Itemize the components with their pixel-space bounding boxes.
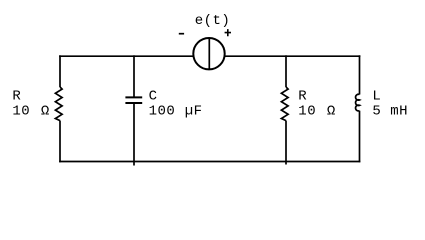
label source plus sign (225, 29, 231, 36)
wire bottom (59, 161, 360, 163)
capacitor C1 top plate (125, 96, 142, 98)
svg-text:e(t): e(t) (195, 13, 230, 29)
svg-text:10 Ω: 10 Ω (12, 103, 49, 119)
inductor L1 coil bumps (356, 94, 360, 111)
resistor R2 zigzag (281, 87, 288, 121)
svg-text:100 µF: 100 µF (149, 103, 203, 119)
resistor R1 zigzag (55, 87, 62, 121)
svg-text:5 mH: 5 mH (372, 103, 408, 119)
voltage source U1 internal line (208, 38, 210, 70)
wire left branch upper (59, 55, 61, 87)
svg-text:R: R (298, 88, 307, 104)
svg-text:R: R (12, 88, 21, 104)
capacitor C1 bottom plate (125, 102, 142, 104)
wire R2 branch lower (285, 121, 287, 165)
wire right branch upper (359, 55, 361, 94)
wire capacitor branch upper (133, 55, 135, 97)
wire top-right segment (225, 55, 361, 57)
voltage source U1 circle (193, 38, 224, 69)
svg-text:10 Ω: 10 Ω (298, 103, 335, 119)
wire right branch lower (359, 111, 361, 163)
wire R2 branch upper (285, 55, 287, 87)
wire top-left segment (59, 55, 193, 57)
wire left branch lower (59, 121, 61, 163)
svg-text:C: C (149, 88, 157, 104)
label source minus sign (179, 33, 184, 35)
wire capacitor branch lower (133, 103, 135, 166)
svg-text:L: L (372, 88, 380, 104)
